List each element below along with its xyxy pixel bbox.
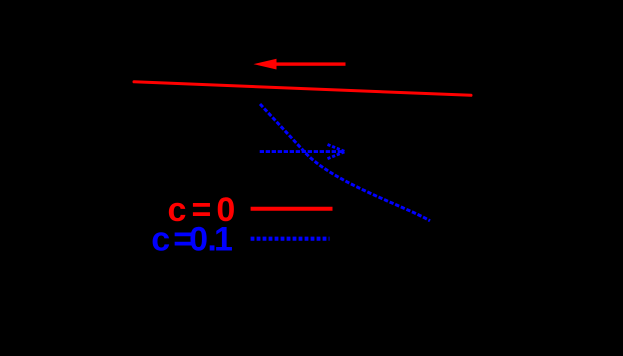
legend sample line c=0.1 [251, 237, 330, 241]
red arrow (left-pointing) [254, 59, 346, 70]
blue dashed arrow (right-pointing) [260, 145, 345, 159]
svg-text:c=0.1: c=0.1 [151, 221, 233, 259]
red curve c=0 [134, 82, 471, 96]
blue dotted curve c=0.1 [260, 104, 430, 221]
legend sample line c=0 [251, 207, 333, 211]
